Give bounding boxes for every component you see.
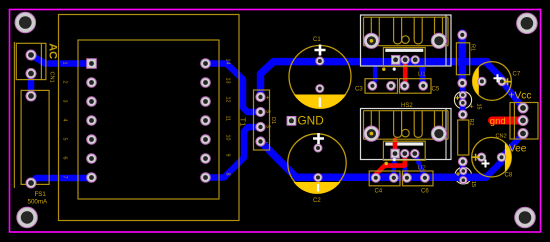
pin numbers T1 right [225, 59, 231, 176]
capacitor C4 outline [369, 171, 400, 186]
svg-text:CN1: CN1 [49, 72, 55, 83]
svg-text:8: 8 [225, 173, 231, 176]
C7 plus marks [494, 74, 502, 82]
svg-text:1: 1 [62, 62, 68, 65]
bridge rectifier D1 outline [254, 90, 270, 150]
svg-text:C5: C5 [432, 87, 440, 93]
wire top rail to C3 pad1 [372, 64, 375, 86]
via white dot [393, 158, 396, 161]
wire D1-minus to bottom rail to C8 [261, 142, 487, 178]
pads heatsink HS1 [364, 33, 447, 48]
wire U2-1 to C4 pad2 [394, 154, 395, 178]
wire CN1-2 to FS1-1 [28, 74, 34, 97]
svg-text:CN2: CN2 [496, 134, 507, 140]
svg-text:+: + [266, 96, 270, 102]
resistor R1 outline [456, 43, 469, 75]
regulator U2 outline [383, 141, 425, 160]
mounting hole BL [17, 207, 38, 228]
C1 minus mark [319, 98, 321, 108]
svg-text:FS1: FS1 [35, 191, 47, 198]
pads C3 [368, 81, 395, 90]
capacitor C5 outline [400, 79, 432, 94]
svg-text:3: 3 [62, 100, 68, 103]
regulator U2 tab [385, 142, 423, 145]
svg-text:-: - [266, 140, 268, 146]
wire C8 pad2 to CN2-3 [502, 134, 523, 157]
pads heatsink HS2 [364, 126, 447, 141]
connector CN1 outline [16, 43, 46, 79]
fuse FS1 outline [21, 90, 49, 184]
silk keepout line left [13, 42, 15, 188]
pads FS1 [26, 91, 36, 188]
heatsink HS2 frame [361, 109, 452, 160]
svg-text:+: + [470, 104, 474, 111]
capacitor C1 body [289, 46, 351, 109]
mounting hole BR [515, 207, 536, 228]
resistor R2 outline [458, 120, 469, 155]
wire CN1-1 to T1-1 [31, 55, 92, 64]
svg-text:9: 9 [225, 154, 231, 157]
svg-text:gnd: gnd [490, 116, 506, 127]
connector CN2 outline [510, 103, 538, 140]
capacitor C2 body [288, 134, 346, 194]
wire gnd bar to CN2-2 [492, 117, 523, 125]
svg-text:T1: T1 [239, 118, 248, 127]
svg-text:7: 7 [62, 176, 68, 179]
C1 plus mark [315, 45, 326, 56]
C2 plus mark [313, 133, 324, 144]
svg-text:C3: C3 [355, 87, 363, 93]
pads CN2 [518, 103, 528, 139]
C2 minus mark [317, 184, 319, 192]
svg-text:5: 5 [62, 138, 68, 141]
wire R2 to bottom rail via -15 [460, 162, 466, 177]
wire top rail to C7 pad2 [486, 62, 523, 108]
pads U2 [391, 149, 419, 158]
pads C8 [477, 153, 505, 161]
capacitor C6 outline [403, 171, 434, 186]
indicator circle +15 [454, 91, 471, 108]
pads C7 [478, 77, 506, 85]
wire U1-2 stub [403, 60, 408, 84]
svg-text:6: 6 [62, 157, 68, 160]
wire U2-2 to C4 pad1 [376, 154, 405, 178]
pads T1 right column [201, 59, 211, 183]
wire T1-14 to D1-ac1 [206, 64, 261, 113]
svg-text:11: 11 [225, 116, 231, 122]
wire R1 to R2 via +15 [460, 83, 466, 115]
transformer T1 inner outline [78, 40, 219, 199]
pads C2 [314, 144, 322, 182]
svg-text:C4: C4 [375, 189, 383, 195]
pads C5 [400, 81, 427, 90]
svg-text:13: 13 [225, 78, 231, 84]
svg-text:-Vee: -Vee [506, 144, 527, 155]
via yellow dot [384, 162, 388, 166]
wire U1-3 to C5 pad2 [415, 60, 422, 86]
svg-text:C2: C2 [313, 198, 321, 204]
pads T1 left column [87, 59, 97, 183]
wire T1-8 to D1-ac2 [206, 127, 261, 178]
pads R1 [458, 31, 467, 88]
pin numbers T1 left [62, 62, 68, 179]
svg-text:2: 2 [62, 81, 68, 84]
pads C4 [371, 173, 398, 182]
svg-text:AC: AC [46, 43, 58, 59]
mounting hole TL [15, 12, 36, 33]
pads R2 [458, 110, 467, 166]
pads CN1 [26, 50, 36, 79]
svg-text:C7: C7 [513, 72, 521, 78]
pad GND test point [287, 116, 296, 125]
svg-text:R1: R1 [470, 44, 476, 51]
svg-text:15: 15 [470, 181, 476, 187]
mounting hole TR [517, 13, 538, 34]
capacitor C7 body [473, 62, 512, 101]
wire D1-plus to main top rail [261, 62, 488, 97]
pads C6 [403, 173, 430, 182]
svg-text:HS2: HS2 [401, 103, 413, 109]
wire FS1-2 to T1-7 [31, 178, 92, 183]
svg-text:GND: GND [298, 114, 324, 128]
wire U2-3 to C6 pad2 [415, 154, 425, 178]
markings D1 [265, 96, 271, 147]
regulator U1 outline [383, 48, 425, 67]
svg-text:15: 15 [476, 104, 482, 110]
wire U2-2 to C6 pad1 [405, 154, 407, 178]
C8 plus marks [482, 160, 490, 168]
capacitor C8 body [472, 137, 512, 177]
text -15 [467, 181, 477, 188]
indicator -15 [456, 167, 467, 183]
text +15 [470, 104, 482, 111]
svg-text:R2: R2 [468, 119, 474, 126]
svg-text:4: 4 [62, 119, 68, 122]
svg-text:10: 10 [225, 135, 231, 141]
svg-text:U1: U1 [418, 71, 427, 78]
svg-text:+Vcc: +Vcc [509, 91, 532, 102]
svg-text:14: 14 [225, 59, 231, 65]
pads D1 [256, 92, 265, 146]
heatsink HS1 frame [361, 15, 452, 66]
regulator U1 tab [385, 49, 423, 52]
svg-text:C1: C1 [313, 37, 321, 43]
transformer T1 outer outline [59, 15, 240, 221]
wire U2-1 stub up [393, 140, 398, 154]
svg-text:U2: U2 [418, 165, 427, 172]
svg-text:D1: D1 [270, 117, 276, 124]
capacitor C3 outline [365, 79, 398, 94]
svg-text:C6: C6 [421, 189, 429, 195]
pads C1 [316, 57, 324, 93]
wire R1 stub [458, 33, 466, 83]
indicator circle -15 [455, 167, 472, 184]
indicator +15 [456, 91, 467, 106]
via white dot U1 [393, 68, 396, 71]
pads U1 [392, 56, 420, 65]
via yellow dot U1 [382, 68, 385, 71]
wire bottom rail to C8 pad2 [486, 157, 502, 177]
svg-text:12: 12 [225, 97, 231, 103]
svg-text:500mA: 500mA [28, 199, 48, 206]
svg-text:C8: C8 [505, 173, 513, 179]
